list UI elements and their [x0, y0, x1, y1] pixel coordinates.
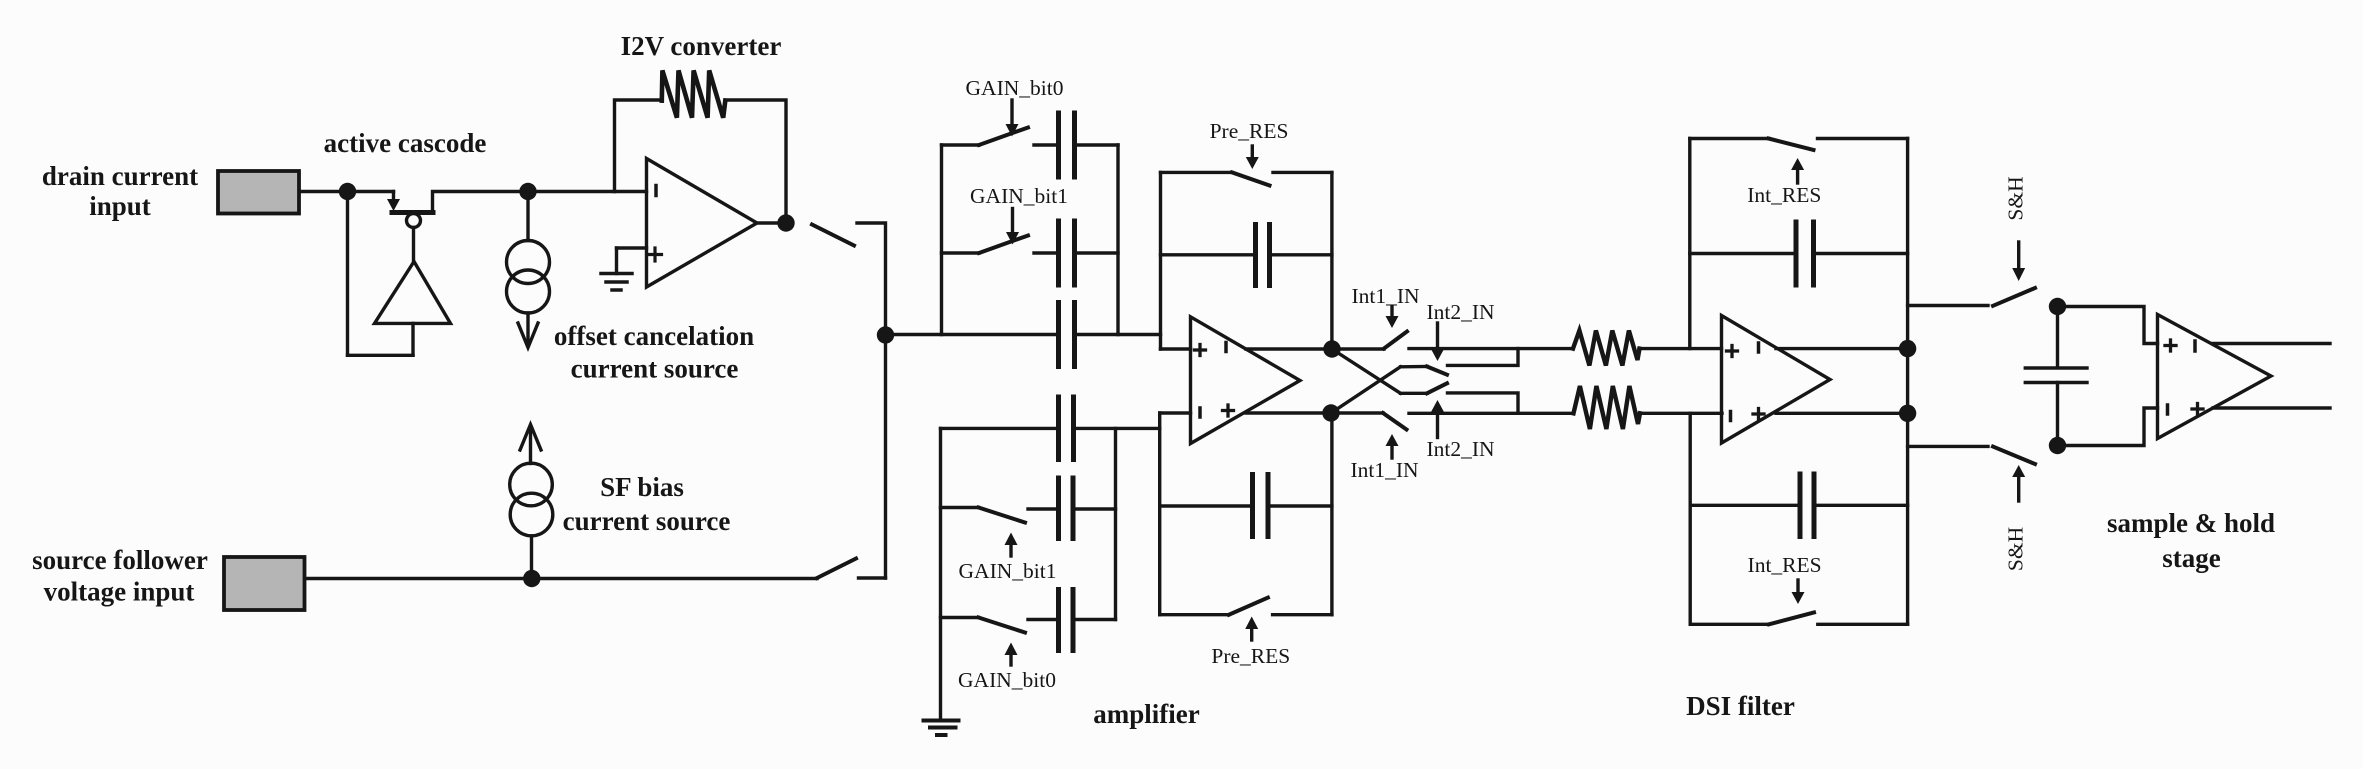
capacitor C6 (GAIN_bit0 lower) [1028, 618, 1059, 621]
wire crossover top output segment [1448, 349, 1519, 366]
current source I2 circle 1 [510, 463, 553, 506]
wire gain tap vertical (upper) [940, 145, 943, 335]
wire DSI right vertical [1906, 139, 1909, 625]
wire ground rail vertical [939, 428, 942, 720]
capacitor C1 (main row) [1059, 303, 1075, 367]
switch Pre_RES (upper) blade [1232, 172, 1270, 185]
U4 plus mark top [1727, 346, 1738, 357]
svg-text:GAIN_bit0: GAIN_bit0 [958, 668, 1056, 692]
svg-text:current source: current source [563, 506, 731, 536]
current source I2 (SF bias) arrow [520, 425, 541, 451]
wire U5 output top [2213, 342, 2330, 345]
wire cross diagonal from bottom node [1331, 367, 1401, 413]
switch GAIN_bit1 blade [979, 236, 1028, 254]
capacitor C11 (hold cap) top lead [2056, 307, 2059, 368]
svg-text:I2V converter: I2V converter [621, 31, 782, 61]
wire gain right vertical (upper) [1116, 145, 1119, 335]
ground G1 [615, 248, 618, 274]
capacitor C10 (Int_RES lower) [1690, 504, 1800, 507]
wire Int_RES upper top rail left [1690, 137, 1769, 140]
label: amplifier [1093, 699, 1199, 729]
wire gate bubble to inverter output [412, 228, 415, 262]
wire cross diagonal from top node [1332, 349, 1401, 393]
arrow Int1_IN (top) [1390, 307, 1393, 316]
node H junction dot (DSI top output) [1899, 340, 1916, 357]
wire pad to switch S2 [305, 577, 817, 580]
wire node B to op-amp U2 inverting input [528, 190, 647, 193]
label: drain current input [42, 161, 198, 221]
wire S&H bottom to buffer [2058, 408, 2158, 446]
wire U3 output top [1246, 347, 1332, 350]
switch S&H (top) blade [1993, 288, 2035, 306]
svg-text:Pre_RES: Pre_RES [1211, 644, 1290, 668]
current source I2 circle 2 [510, 493, 553, 536]
switch GAIN_bit0 blade [979, 128, 1028, 146]
capacitor C11 bottom lead [2056, 383, 2059, 446]
wire amp lower input [1160, 411, 1191, 414]
wire U2 output stub [757, 221, 786, 224]
node E junction dot (amp input rail) [877, 326, 894, 343]
svg-text:SF bias: SF bias [600, 472, 684, 502]
svg-text:offset cancelation: offset cancelation [554, 321, 754, 351]
svg-text:source follower: source follower [32, 545, 208, 575]
switch Int_RES (upper) blade [1769, 139, 1814, 151]
svg-text:drain current: drain current [42, 161, 198, 191]
U3 plus mark bottom [1223, 405, 1234, 416]
arrow S&H (top) [2017, 242, 2020, 268]
capacitor C3 (GAIN_bit1) [1034, 251, 1059, 254]
op-amp U2 plus mark [649, 248, 662, 261]
arrow GAIN_bit0 (lower) [1009, 655, 1012, 665]
arrow GAIN_bit1 (upper) [1011, 209, 1014, 233]
op-amp U5 (output buffer, fully differential) [2158, 315, 2272, 439]
arrow Int2_IN (top) [1436, 323, 1439, 349]
transistor Q1 drain lead [433, 192, 529, 213]
wire inverter input stem [411, 323, 414, 355]
wire Int_RES lower bottom rail left [1690, 623, 1769, 626]
wire upper main row right [1075, 333, 1161, 336]
label: I2V converter [621, 31, 782, 61]
op-amp U3 (amplifier, fully differential) [1191, 317, 1301, 444]
svg-text:stage: stage [2162, 543, 2220, 573]
capacitor C11 plates [2025, 368, 2087, 383]
svg-text:Int_RES: Int_RES [1747, 183, 1821, 207]
transistor Q1 gate bubble [407, 214, 421, 228]
label Int2_IN (top) [1426, 300, 1495, 324]
wire Pre_RES upper top rail right [1273, 171, 1332, 174]
switch S2 (SF input select) blade [817, 559, 856, 579]
capacitor C8 (Pre_RES lower) [1160, 504, 1253, 507]
wire feedback left vertical U2 [615, 100, 660, 192]
wire feedback bottom [348, 354, 414, 357]
node B junction dot [519, 183, 536, 200]
arrow Int_RES (upper) [1796, 170, 1799, 183]
wire U3 output bottom [1246, 411, 1331, 414]
capacitor C7 (Pre_RES upper) [1161, 253, 1256, 256]
arrow Pre_RES (lower) [1250, 629, 1253, 640]
label GAIN_bit1 (lower) [959, 559, 1057, 583]
switch S&H (bottom) blade [1993, 447, 2035, 464]
wire resistor to output vertical [726, 100, 787, 223]
wire DSI bottom output tap [1908, 445, 1988, 448]
label: DSI filter [1686, 691, 1795, 721]
switch Int1_IN (bottom) wire [1331, 411, 1383, 414]
current source I1 circle 1 [507, 241, 550, 284]
node C output junction dot [777, 214, 794, 231]
wire Pre_RES upper top rail left [1161, 171, 1233, 174]
wire R2 to DSI amp [1639, 347, 1722, 350]
svg-text:voltage input: voltage input [44, 577, 195, 607]
resistor R3 (bottom DSI input) [1574, 386, 1641, 429]
node I junction dot (DSI bottom output) [1899, 405, 1916, 422]
wire lower main row right [1074, 427, 1160, 430]
arrow Int_RES (lower) [1796, 580, 1799, 592]
wire amp upper input [1161, 347, 1191, 350]
U5 plus mark top [2165, 340, 2176, 351]
node G junction dot (bottom output) [1322, 404, 1339, 421]
node A junction dot [339, 183, 356, 200]
switch Int1_IN (bottom) blade [1383, 413, 1407, 430]
svg-text:input: input [89, 191, 151, 221]
wire Pre_RES lower bottom rail right [1273, 613, 1332, 616]
switch Int2_IN lower chevron [1401, 392, 1428, 395]
arrow Pre_RES (upper) [1251, 146, 1254, 157]
transistor Q1 source arrow [392, 192, 395, 200]
resistor R2 (top DSI input) [1573, 331, 1640, 366]
wire gain right vertical (lower) [1114, 428, 1117, 619]
arrow Int2_IN (bottom) [1436, 412, 1439, 438]
node J junction dot (S&H top) [2049, 298, 2066, 315]
wire U5 output bottom [2213, 406, 2330, 409]
op-amp U4 (DSI filter, fully differential) [1722, 316, 1831, 444]
arrow GAIN_bit0 (upper) [1010, 100, 1013, 124]
label: offset cancelation current source [554, 321, 754, 384]
wire R3 to DSI amp [1640, 412, 1723, 415]
capacitor C2 (GAIN_bit0) [1034, 143, 1059, 146]
U3 minus mark top [1224, 343, 1228, 352]
U4 minus mark bottom [1729, 412, 1733, 421]
wire S&H top to buffer [2058, 307, 2158, 344]
svg-text:Int2_IN: Int2_IN [1426, 300, 1495, 324]
resistor R1 (I2V feedback) [662, 70, 726, 117]
label: source follower voltage input [32, 545, 208, 607]
U5 minus mark top [2193, 341, 2197, 351]
svg-text:GAIN_bit1: GAIN_bit1 [959, 559, 1057, 583]
U4 minus mark top [1757, 343, 1761, 352]
label S&H (bottom, rotated) [2004, 527, 2028, 571]
capacitor C9 (Int_RES upper) [1690, 252, 1796, 255]
label S&H (top, rotated) [2004, 176, 2028, 220]
wire node B down to offset current source [526, 192, 529, 241]
wire Int_RES lower left vertical [1688, 413, 1691, 624]
current source I1 circle 2 [507, 270, 550, 313]
wire bottom main line to resistor [1409, 412, 1574, 415]
ground G2 [924, 721, 959, 736]
switch GAIN_bit1 row wire [942, 251, 980, 254]
label GAIN_bit0 (upper) [966, 76, 1064, 100]
node F junction dot (top output) [1323, 340, 1340, 357]
switch GAIN_bit0 (lower) blade [979, 618, 1026, 633]
wire node A to transistor source [348, 190, 394, 193]
op-amp U1 (cascode inverter, apex up) [375, 262, 451, 324]
svg-text:amplifier: amplifier [1093, 699, 1199, 729]
wire crossover bottom output segment [1448, 393, 1519, 412]
svg-text:S&H: S&H [2004, 176, 2028, 220]
wire DSI top output tap [1908, 304, 1988, 307]
label Int_RES (upper) [1747, 183, 1821, 207]
node K junction dot (S&H bottom) [2049, 437, 2066, 454]
wire upper main row left [886, 333, 1059, 336]
wire I2 to node D [530, 536, 533, 579]
U5 minus mark bottom [2166, 405, 2170, 414]
wire Pre_RES lower right vertical [1330, 413, 1333, 615]
arrow S&H (bottom) [2017, 477, 2020, 501]
svg-text:Int1_IN: Int1_IN [1351, 284, 1420, 308]
label: active cascode [324, 128, 487, 158]
wire pad to node A [300, 190, 348, 193]
svg-text:GAIN_bit1: GAIN_bit1 [970, 184, 1068, 208]
wire Pre_RES upper left vertical [1159, 172, 1162, 349]
switch Int1_IN (top) blade [1384, 332, 1407, 349]
switch S1 foot and rail vertical [857, 223, 886, 578]
label: SF bias current source [563, 472, 731, 536]
svg-text:GAIN_bit0: GAIN_bit0 [966, 76, 1064, 100]
wire Pre_RES upper right vertical [1330, 172, 1333, 349]
switch GAIN_bit0 row wire [942, 143, 980, 146]
wire top main line to resistor [1409, 347, 1573, 350]
current source I1 arrow [526, 313, 529, 344]
label Int_RES (lower) [1748, 553, 1822, 577]
input pad (drain current) [218, 171, 299, 214]
switch S2 foot [859, 576, 886, 579]
label: sample & hold stage [2107, 508, 2275, 573]
svg-text:Pre_RES: Pre_RES [1210, 119, 1289, 143]
label GAIN_bit0 (lower) [958, 668, 1056, 692]
wire Int_RES upper left vertical [1688, 139, 1691, 349]
svg-text:Int1_IN: Int1_IN [1350, 458, 1419, 482]
switch Int2_IN upper chevron [1401, 365, 1428, 369]
arrow GAIN_bit1 (lower) [1009, 545, 1012, 556]
label Pre_RES (upper) [1210, 119, 1289, 143]
label Int1_IN (bottom) [1350, 458, 1419, 482]
switch GAIN_bit0 (lower) row wire [941, 616, 979, 619]
svg-text:sample & hold: sample & hold [2107, 508, 2275, 538]
wire Int_RES upper top rail right [1818, 137, 1908, 140]
U3 plus mark top [1195, 345, 1206, 356]
input pad (source follower) [224, 557, 305, 610]
arrow Int1_IN (bottom) [1390, 446, 1393, 458]
wire Pre_RES lower left vertical [1158, 413, 1161, 615]
U4 plus mark bottom [1753, 409, 1764, 420]
wire Pre_RES lower bottom rail left [1160, 613, 1229, 616]
U5 plus mark bottom [2192, 404, 2203, 415]
wire lower main row left [941, 427, 1059, 430]
transistor Q1 channel bar [392, 210, 433, 215]
switch GAIN_bit1 (lower) blade [979, 508, 1026, 523]
label Int1_IN (top) [1351, 284, 1420, 308]
switch S1 (I2V output select) blade [812, 225, 854, 246]
svg-text:DSI filter: DSI filter [1686, 691, 1795, 721]
node D junction dot [523, 570, 540, 587]
wire U4 output bottom [1776, 412, 1908, 415]
wire feedback left vertical [346, 192, 349, 356]
switch GAIN_bit1 (lower) row wire [941, 506, 979, 509]
svg-text:S&H: S&H [2004, 527, 2028, 571]
op-amp U2 (I2V converter) [647, 159, 758, 288]
svg-text:active cascode: active cascode [324, 128, 487, 158]
switch Int_RES (lower) blade [1769, 613, 1814, 625]
op-amp U2 minus mark [654, 186, 658, 196]
label Int2_IN (bottom) [1426, 437, 1495, 461]
capacitor C4 (lower main row) [1059, 397, 1074, 460]
svg-text:Int_RES: Int_RES [1748, 553, 1822, 577]
capacitor C5 (GAIN_bit1 lower) [1028, 507, 1059, 510]
wire U2 plus input [617, 246, 647, 249]
label GAIN_bit1 (upper) [970, 184, 1068, 208]
wire Int_RES lower bottom rail right [1818, 623, 1908, 626]
U3 minus mark bottom [1198, 408, 1202, 417]
label Pre_RES (lower) [1211, 644, 1290, 668]
switch Int1_IN (top) wire [1332, 347, 1384, 350]
svg-text:Int2_IN: Int2_IN [1426, 437, 1495, 461]
switch Pre_RES (lower) blade [1229, 598, 1268, 615]
wire U4 output top [1776, 347, 1908, 350]
svg-text:current source: current source [571, 354, 739, 384]
